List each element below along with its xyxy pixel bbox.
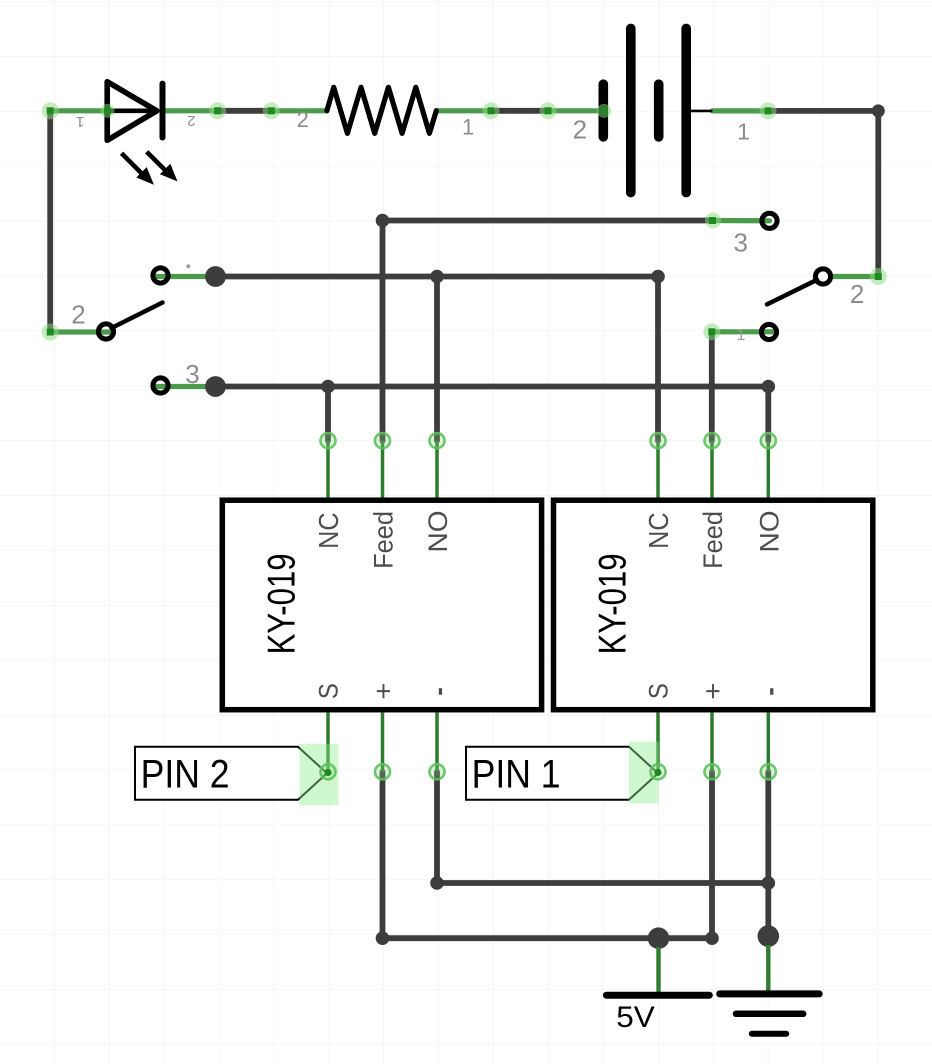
wire: minus rail left relay — [437, 772, 768, 883]
wire: LED anode stub — [50, 108, 108, 113]
svg-text:1: 1 — [462, 115, 474, 140]
svg-text:NC: NC — [643, 512, 674, 549]
connection glows — [42, 102, 887, 340]
svg-text:1: 1 — [737, 327, 746, 344]
pin end rings — [321, 433, 776, 779]
U1 pin NO — [435, 441, 439, 498]
U2 pin Feed — [710, 441, 714, 498]
pin end halos — [319, 432, 777, 781]
wire: dark bend segment — [491, 108, 548, 114]
wire: green to resistor — [271, 108, 327, 113]
svg-text:KY-019: KY-019 — [260, 553, 303, 654]
svg-text:2: 2 — [187, 112, 195, 129]
wire: LED cathode green — [164, 108, 218, 113]
switch SW2 — [761, 213, 830, 339]
battery — [603, 28, 712, 192]
junction: plus rail right corner — [705, 931, 719, 945]
junction: minus rail join — [762, 876, 776, 890]
svg-text:KY-019: KY-019 — [592, 553, 635, 654]
wire: green to battery — [548, 108, 600, 113]
junction: NO-left tap — [430, 270, 444, 284]
wire end caps (dark green squares) — [47, 107, 882, 776]
relay module U1 KY-019 (left) — [222, 500, 541, 710]
wire: battery output green — [712, 108, 768, 113]
junction: bend at Feed top — [376, 214, 390, 228]
U2 pin + — [710, 712, 714, 771]
junction: plus rail left corner — [376, 931, 390, 945]
svg-text:2: 2 — [850, 279, 864, 309]
U2 pin NO — [767, 441, 771, 498]
SW1 pin label 1 (tiny) — [186, 264, 190, 268]
LED — [107, 82, 177, 185]
svg-text:3: 3 — [733, 228, 747, 258]
power symbol 5V — [606, 947, 709, 1034]
svg-text:2: 2 — [297, 107, 309, 132]
svg-text:1: 1 — [737, 119, 750, 145]
svg-text:2: 2 — [71, 300, 85, 330]
svg-text:PIN 1: PIN 1 — [472, 753, 561, 797]
svg-text:5V: 5V — [616, 1001, 655, 1034]
svg-text:S: S — [314, 683, 344, 699]
wire: corner to SW2 pin2 green — [831, 274, 879, 279]
junction: 5V tap dot — [648, 927, 670, 949]
wire: left vertical drop — [47, 111, 53, 332]
wire: SW1 pin1 green stub — [157, 274, 216, 279]
switch SW1 — [98, 268, 168, 393]
wire: dark middle segment — [218, 108, 272, 114]
wire: left relay NO drop — [434, 277, 440, 441]
wire: left relay Feed to SW2 pin3 — [383, 221, 713, 441]
junction: NO-right corner — [762, 380, 776, 394]
wire: right relay NC drop — [655, 277, 661, 441]
U2 pin NC — [656, 441, 660, 498]
U2 pin - — [767, 712, 771, 771]
svg-text:NO: NO — [754, 511, 784, 553]
wire: battery to right corner — [768, 111, 878, 277]
svg-text:PIN 2: PIN 2 — [141, 753, 230, 797]
svg-text:NC: NC — [313, 512, 344, 549]
relay module U2 KY-019 (right) — [554, 500, 873, 710]
U1 pin NC — [326, 441, 330, 498]
wire: bus SW1 pin1 to right relay NC — [216, 274, 659, 280]
net label PIN 2 — [135, 744, 339, 806]
resistor — [327, 87, 436, 133]
wire: right relay minus drop to ground — [765, 772, 771, 936]
U1 pin - — [435, 712, 439, 771]
wire: right relay NO drop — [765, 387, 771, 441]
svg-text:2: 2 — [573, 115, 587, 145]
wire: left relay NC drop — [325, 387, 331, 441]
svg-text:NO: NO — [423, 511, 453, 553]
svg-text:Feed: Feed — [698, 511, 728, 569]
svg-text:+: + — [368, 683, 398, 700]
wire: green stub to SW2 pin3 — [712, 218, 769, 224]
junction: minus rail left corner — [430, 876, 444, 890]
wire: bus SW1 pin3 to right relay NO — [216, 384, 769, 390]
U1 pin Feed — [381, 441, 385, 498]
svg-text:3: 3 — [185, 359, 199, 389]
U1 pin + — [381, 712, 385, 771]
svg-text:1: 1 — [76, 113, 84, 130]
ground symbol — [720, 945, 820, 1034]
svg-text:+: + — [698, 683, 728, 700]
wire: to SW1 common — [50, 329, 111, 334]
U2 pin S — [656, 712, 660, 771]
wire: right relay Feed drop — [709, 332, 715, 441]
junction: battery corner bend — [872, 104, 885, 117]
junction: SW1 pin3 dot — [205, 376, 226, 397]
svg-text:Feed: Feed — [368, 511, 398, 569]
svg-text:S: S — [644, 683, 674, 699]
wire: SW2 pin1 green — [712, 329, 773, 334]
junction: NC-left tap — [321, 380, 335, 394]
wire: SW1 pin3 green stub — [157, 384, 216, 389]
wire: plus rail left relay to right relay — [383, 772, 713, 938]
net label PIN 1 — [466, 742, 659, 804]
U1 pin S — [326, 712, 330, 771]
junction: ground tap dot — [758, 925, 780, 947]
junction: NC-right corner — [651, 270, 665, 284]
junction: SW1 pin1 dot — [205, 266, 226, 287]
wire: resistor to bend green — [436, 108, 491, 113]
